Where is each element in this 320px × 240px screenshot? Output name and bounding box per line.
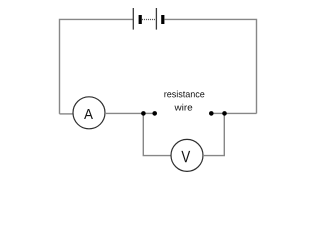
wire: left corner to ammeter xyxy=(60,113,74,115)
node: clip junction 2 xyxy=(152,111,157,116)
battery dotted continuation between cells xyxy=(142,19,156,21)
wire: right clip to bottom-right corner xyxy=(224,112,256,114)
wire: ammeter to left crocodile clip xyxy=(105,112,143,114)
wire: between right pair of clips xyxy=(211,112,224,114)
label: resistance wire xyxy=(164,91,204,98)
wire: voltmeter branch right (up to clip 4) xyxy=(203,113,224,155)
battery B1 cell 1 long plate xyxy=(132,8,134,30)
battery B1 cell 1 short thick plate xyxy=(139,15,142,24)
battery B1 cell 2 long plate xyxy=(155,8,157,30)
battery B1 cell 2 short thick plate xyxy=(161,15,164,24)
wire: top-left horizontal segment from left corner to battery xyxy=(60,19,134,114)
voltmeter V xyxy=(171,139,203,171)
wire: from battery to top-right corner and down right side xyxy=(164,19,256,113)
node: clip junction 1 xyxy=(141,111,146,116)
node: clip junction 3 xyxy=(209,111,214,116)
node: clip junction 4 xyxy=(222,111,227,116)
wire: between left pair of clips xyxy=(143,112,154,114)
ammeter A xyxy=(73,97,105,129)
wire: voltmeter branch left (down from clip 1) xyxy=(143,113,171,155)
